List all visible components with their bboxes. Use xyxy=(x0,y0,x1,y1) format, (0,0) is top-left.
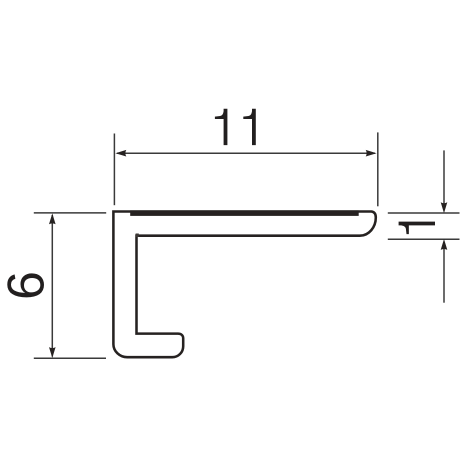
svg-text:6: 6 xyxy=(0,271,56,300)
